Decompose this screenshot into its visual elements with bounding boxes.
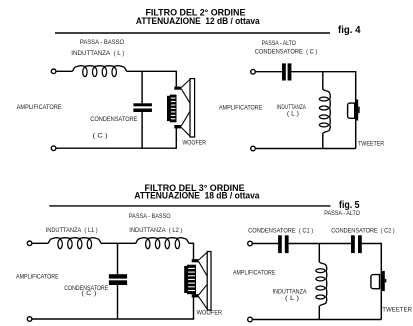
capacitor C (fig.4 right) xyxy=(282,63,291,80)
wire top lead to L1 xyxy=(32,242,49,244)
wire top lead to C (fig.4 right) xyxy=(255,71,282,73)
wire C1 to C2 xyxy=(289,243,351,245)
label CONDENSATORE (fig.4 left) xyxy=(90,116,137,123)
terminal input bottom (fig.5 left) xyxy=(27,317,32,322)
label fig. 5 xyxy=(339,200,360,211)
label CONDENSATORE (C1) xyxy=(248,227,313,234)
svg-text:ATTENUAZIONE 12 dB / ottava: ATTENUAZIONE 12 dB / ottava xyxy=(136,16,261,26)
capacitor C (fig.5 left) xyxy=(109,274,127,285)
wire L2 to woofer branch xyxy=(189,242,194,244)
inductor L1 (fig.5 left) xyxy=(48,238,101,249)
label ( C ) (fig.5 left) xyxy=(81,290,96,297)
wire top lead to L xyxy=(56,70,73,72)
wire tweeter vertical (fig.4 right) xyxy=(355,71,357,149)
label INDUTTANZA (L1) xyxy=(46,227,98,234)
capacitor C1 (fig.5 right) xyxy=(278,235,288,253)
svg-text:AMPLIFICATORE: AMPLIFICATORE xyxy=(219,105,262,112)
woofer speaker (fig.5) xyxy=(184,252,211,311)
terminal input top (fig.4 left) xyxy=(51,69,56,74)
label ( L ) (fig.5 right) xyxy=(285,295,299,302)
label AMPLIFICATORE (fig.4 left) xyxy=(17,104,62,111)
svg-text:AMPLIFICATORE: AMPLIFICATORE xyxy=(233,270,275,277)
label WOOFER (fig.4) xyxy=(182,140,206,147)
svg-text:TWEETER: TWEETER xyxy=(382,306,412,313)
wire bottom (fig.5 right) xyxy=(252,319,381,321)
svg-text:PASSA - ALTO: PASSA - ALTO xyxy=(324,210,360,217)
label PASSA - BASSO (fig.5 left) xyxy=(129,213,171,220)
svg-text:INDUTTANZA ( L1 ): INDUTTANZA ( L1 ) xyxy=(46,227,98,234)
terminal input top (fig.4 right) xyxy=(251,69,256,74)
tweeter speaker (fig.4) xyxy=(348,100,360,121)
label PASSA - ALTO (fig.5 right) xyxy=(324,210,360,217)
wire inductor branch upper (fig.4 right) xyxy=(322,72,324,90)
label WOOFER (fig.5) xyxy=(197,310,223,317)
label INDUTTANZA (fig.5 right) xyxy=(273,289,308,296)
tweeter speaker (fig.5) xyxy=(371,271,386,291)
label INDUTTANZA (L2) xyxy=(129,227,182,234)
svg-text:PASSA - BASSO: PASSA - BASSO xyxy=(80,39,124,46)
label TWEETER (fig.4) xyxy=(358,140,384,147)
wire bottom (fig.4 left) xyxy=(56,147,177,149)
wire capacitor branch lower (fig.4 left) xyxy=(141,112,143,148)
wire C2 to tweeter (fig.5 right) xyxy=(362,243,382,245)
wire capacitor branch upper (fig.5 left) xyxy=(117,243,119,274)
terminal input bottom (fig.4 left) xyxy=(51,146,56,151)
label ( L ) (fig.4 right) xyxy=(287,110,299,117)
label ( C ) (fig.4 left) xyxy=(93,132,108,139)
wire inductor branch lower (fig.5 right) xyxy=(318,306,320,319)
wire inductor branch upper (fig.5 right) xyxy=(318,244,320,263)
svg-text:WOOFER: WOOFER xyxy=(197,310,223,317)
wire capacitor branch lower (fig.5 left) xyxy=(117,285,119,319)
label INDUTTANZA (L) xyxy=(71,50,124,57)
svg-text:( C ): ( C ) xyxy=(93,132,108,139)
title filtro del 3 ordine xyxy=(145,183,245,193)
label CONDENSATORE (fig.5 left) xyxy=(64,285,108,292)
wire bottom (fig.5 left) xyxy=(32,318,195,320)
inductor L (fig.4 right) xyxy=(319,89,330,134)
title filtro del 2 ordine xyxy=(145,7,245,17)
svg-text:INDUTTANZA ( L ): INDUTTANZA ( L ) xyxy=(71,50,124,57)
terminal input bottom (fig.5 right) xyxy=(248,317,253,322)
svg-text:( L ): ( L ) xyxy=(285,295,299,302)
svg-text:PASSA - ALTO: PASSA - ALTO xyxy=(262,40,296,47)
svg-text:CONDENSATORE: CONDENSATORE xyxy=(90,116,137,123)
inductor L2 (fig.5 left) xyxy=(136,238,189,249)
label AMPLIFICATORE (fig.4 right) xyxy=(219,105,262,112)
svg-text:WOOFER: WOOFER xyxy=(182,140,206,147)
terminal input top (fig.5 left) xyxy=(27,241,32,246)
svg-text:( C ): ( C ) xyxy=(81,290,96,297)
label PASSA - BASSO (fig.4 left) xyxy=(80,39,124,46)
wire inductor branch lower (fig.4 right) xyxy=(322,133,324,148)
wire top lead to C1 xyxy=(252,243,278,245)
svg-text:CONDENSATORE ( C2 ): CONDENSATORE ( C2 ) xyxy=(331,227,394,234)
label CONDENSATORE (C) (fig.4 right) xyxy=(255,49,318,56)
svg-text:INDUTTANZA ( L2 ): INDUTTANZA ( L2 ) xyxy=(129,227,182,234)
wire right vertical lower (fig.4 left) xyxy=(175,127,177,148)
inductor L (fig.5 right) xyxy=(316,262,327,307)
svg-text:ATTENUAZIONE 18 dB / ottava: ATTENUAZIONE 18 dB / ottava xyxy=(134,190,260,200)
inductor L (fig.4 left) xyxy=(73,66,127,77)
svg-text:CONDENSATORE ( C1 ): CONDENSATORE ( C1 ) xyxy=(248,227,313,234)
label AMPLIFICATORE (fig.5 right) xyxy=(233,270,275,277)
wire L to woofer branch xyxy=(127,70,177,72)
title attenuazione 12 dB xyxy=(136,16,261,26)
svg-text:PASSA - BASSO: PASSA - BASSO xyxy=(129,213,171,220)
label CONDENSATORE (C2) xyxy=(331,227,394,234)
label TWEETER (fig.5) xyxy=(382,306,412,313)
rule under fig.4 title xyxy=(55,32,330,34)
svg-text:AMPLIFICATORE: AMPLIFICATORE xyxy=(17,104,62,111)
svg-text:fig. 4: fig. 4 xyxy=(338,25,361,36)
label fig. 4 xyxy=(338,25,361,36)
wire woofer vertical upper (fig.5 left) xyxy=(193,243,195,260)
wire C to tweeter (fig.4 right) xyxy=(291,71,356,73)
wire bottom (fig.4 right) xyxy=(255,148,356,150)
svg-text:TWEETER: TWEETER xyxy=(358,140,384,147)
svg-text:AMPLIFICATORE: AMPLIFICATORE xyxy=(16,273,59,280)
wire L1 to L2 xyxy=(101,242,136,244)
label INDUTTANZA (fig.4 right) xyxy=(277,104,307,111)
rule under fig.5 title xyxy=(49,205,330,207)
terminal input top (fig.5 right) xyxy=(248,241,253,246)
wire tweeter vertical (fig.5 right) xyxy=(380,243,382,320)
title attenuazione 18 dB xyxy=(134,190,260,200)
terminal input bottom (fig.4 right) xyxy=(251,146,256,151)
wire woofer vertical lower (fig.5 left) xyxy=(193,297,195,320)
capacitor C2 (fig.5 right) xyxy=(351,235,362,253)
label PASSA - ALTO (fig.4 right) xyxy=(262,40,296,47)
svg-text:CONDENSATORE ( C ): CONDENSATORE ( C ) xyxy=(255,49,318,56)
svg-text:( L ): ( L ) xyxy=(287,110,299,117)
label AMPLIFICATORE (fig.5 left) xyxy=(16,273,59,280)
wire capacitor branch upper (fig.4 left) xyxy=(141,71,143,103)
capacitor C (fig.4 left) xyxy=(133,103,152,112)
wire right vertical upper (fig.4 left) xyxy=(175,71,177,88)
woofer speaker (fig.4) xyxy=(167,79,195,137)
